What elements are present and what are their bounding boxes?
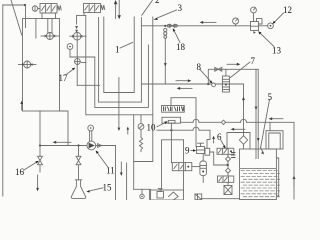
wire dip tube in T1 [35, 19, 37, 39]
pipe T1 bottom drain to pump [60, 111, 69, 146]
node branch to flask [77, 144, 79, 146]
svg-text:8: 8 [197, 62, 202, 72]
element 10 level device [162, 117, 181, 130]
node junction below T1 [39, 144, 41, 146]
U-trap vessel 1 inner shell [104, 17, 134, 93]
pipe main line turns down [243, 84, 245, 136]
arrow left above box A [231, 128, 245, 131]
valve 16 (manual, vertical) [38, 156, 43, 172]
leader line 18 [173, 28, 180, 42]
svg-text:1: 1 [115, 45, 120, 55]
valve 6 solenoid [217, 148, 234, 154]
wire T1 center drop [39, 111, 41, 156]
arrow down on riser [164, 63, 167, 66]
leader line 2 (clipped label) [142, 1, 153, 16]
pipe pair down into tank 5 [255, 69, 264, 158]
arrow right above main line [176, 79, 191, 82]
leader line 12 [273, 13, 284, 24]
arrow up on right edge pipe [293, 176, 296, 187]
pipe main middle line [142, 83, 243, 85]
arrow left on top line [200, 21, 216, 24]
wire valve V2 to U-trap wall [77, 13, 86, 25]
U-trap vessel 1 shell 2 [99, 18, 142, 103]
svg-text:6: 6 [217, 132, 222, 142]
leader line 5 [261, 100, 270, 148]
pump 11 [87, 141, 96, 150]
pipe main top line [142, 25, 250, 27]
svg-text:18: 18 [176, 42, 186, 52]
valve on bypass [215, 67, 222, 71]
leader line 16 [24, 161, 39, 170]
arrow left on return line [269, 117, 283, 120]
rotameter 12 [268, 23, 274, 29]
injector 8 on main line [212, 83, 216, 87]
arrow up on down-leg [242, 97, 245, 101]
wire loop from U area [171, 98, 196, 147]
wire to rotameter 12 [259, 25, 268, 27]
small diamond valve on return line [221, 120, 225, 124]
leader line 10 [157, 121, 168, 126]
box B over tank right [266, 131, 283, 149]
arrow down below valve 16 [36, 175, 39, 191]
pipe U-trap right drain [134, 115, 153, 162]
svg-text:12: 12 [283, 5, 292, 15]
arrow up beside drop [212, 136, 215, 143]
wire vertical drain mid-bottom [126, 163, 128, 200]
accumulator cylinder [200, 161, 207, 183]
wire stub down to box B [269, 122, 271, 130]
sparger nozzle in T1 [41, 19, 59, 40]
gauge small bottom [134, 189, 151, 198]
node under element 10 [170, 129, 172, 131]
pipe bypass up and right [208, 69, 258, 84]
wire center pipe inside U-trap [118, 78, 120, 128]
element 9 dosing pump cluster [197, 143, 228, 165]
tank T1 [23, 19, 60, 112]
tank 5 [240, 149, 277, 200]
wire top outlet pipe (up flow) [115, 2, 117, 19]
drain chain of small circles under node [164, 28, 167, 38]
svg-text:2: 2 [155, 0, 160, 5]
liquid surface [240, 168, 277, 170]
svg-text:3: 3 [178, 3, 183, 13]
leader line 11 [96, 151, 108, 167]
wire from node down to bottom assembly [170, 130, 172, 162]
small marks left of tank 5 [232, 153, 236, 158]
filter diamond [239, 136, 247, 149]
arrow up on T1 left wall [20, 101, 23, 110]
wire riser from top line down to main line [164, 38, 166, 84]
wire top-left horizontal [3, 4, 25, 6]
wire top inlet pipe (down flow) [118, 0, 120, 17]
flask 15 [71, 180, 86, 199]
wire pipe from node down into tank T1 [25, 5, 27, 28]
small box with marks bottom [195, 194, 202, 200]
valve V2 solenoid block [84, 4, 105, 13]
level gauge on tank 5 [276, 158, 278, 196]
arrow right above bypass [227, 63, 240, 66]
svg-text:15: 15 [103, 183, 113, 193]
pipe return line lower (y130) [157, 127, 210, 148]
valve above flask 15 [76, 146, 81, 181]
solenoid valve mid-bottom [172, 163, 200, 171]
pipe return line upper (y122) [181, 119, 295, 122]
leader line 1 [120, 43, 133, 49]
regulator 13 [251, 7, 263, 34]
wire leader from clipped label 14 [11, 0, 22, 35]
leader line 3 [153, 10, 176, 20]
leader line 7 [231, 62, 251, 78]
leader line 15 [86, 188, 103, 193]
leader line 6 [221, 141, 226, 149]
control box with text scribbles [162, 106, 185, 113]
solenoid lower right [218, 176, 234, 182]
U-trap vessel 1 shell 3 [95, 45, 149, 107]
second nozzle below V2 [75, 40, 100, 85]
liquid hatch [241, 171, 280, 197]
arrow left below main line [177, 87, 192, 90]
gauge PI above T1 outlet [67, 44, 95, 57]
wire vertical x183 [183, 140, 185, 190]
arrows down on V2 drop pipe [75, 26, 78, 29]
sparger nozzle below V2 [70, 32, 86, 40]
node branch on main line [207, 83, 209, 85]
svg-text:10: 10 [147, 123, 157, 133]
check valve chain below 6 [226, 154, 231, 176]
svg-text:5: 5 [268, 92, 273, 102]
pipe pump discharge [96, 144, 116, 200]
node junction at (25,5) [24, 4, 26, 6]
svg-text:13: 13 [272, 46, 282, 56]
svg-text:16: 16 [15, 167, 25, 177]
valve 18 on top line [167, 24, 177, 27]
U-trap vessel 1 outer shell [86, 15, 153, 114]
leader line 8 [200, 70, 212, 84]
arrow down flow near center pipe [120, 162, 123, 176]
pipe return drops at right edge [293, 122, 295, 199]
sparger nozzle lower in T1 [19, 61, 37, 68]
svg-text:11: 11 [106, 166, 115, 176]
arrow up small near U bottom [127, 127, 130, 134]
wire left vertical bus [2, 5, 4, 196]
leader line 13 [258, 31, 274, 46]
svg-text:17: 17 [59, 73, 69, 83]
gauge above pump 11 [88, 125, 94, 141]
node junction on top line [164, 25, 166, 27]
relief device with spring on U drain [138, 115, 144, 152]
arrow left on suction line [53, 141, 71, 144]
small hatched box bottom [224, 182, 232, 194]
pipe bottom run to tank 5 [202, 198, 240, 200]
pipe suction line [40, 145, 87, 147]
svg-text:7: 7 [251, 56, 256, 66]
valve V14 solenoid block [32, 4, 61, 19]
hood box A over tank [227, 133, 250, 149]
leader line 17 [67, 68, 75, 74]
bottom assembly box left [149, 189, 183, 200]
pipe cross line y140 [162, 140, 184, 190]
gauge on top line [233, 18, 239, 26]
svg-text:9: 9 [185, 146, 190, 156]
element 7 inline heater [222, 69, 229, 92]
leader line 9 [191, 149, 196, 152]
